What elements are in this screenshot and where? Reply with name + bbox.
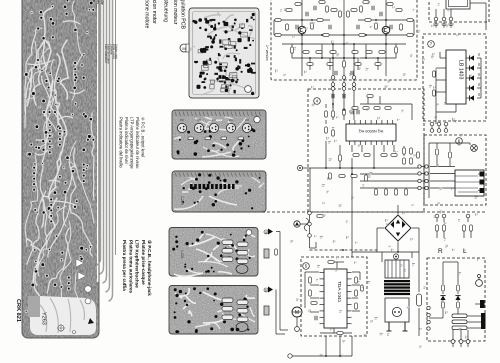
connector pin bbox=[288, 354, 292, 358]
resistor R32 bbox=[433, 90, 436, 96]
svg-text:1-223: 1-223 bbox=[180, 196, 184, 205]
hole board 4 bbox=[246, 230, 252, 236]
resistor R67 bbox=[417, 152, 420, 158]
svg-text:② P.C.B., output level: ② P.C.B., output level bbox=[141, 117, 146, 157]
svg-text:HQ N0009 HQ: HQ N0009 HQ bbox=[359, 129, 384, 133]
tab board 4 bbox=[264, 249, 269, 258]
LED D4 bbox=[470, 85, 474, 90]
resistor R54 bbox=[339, 155, 342, 161]
P.C.B. output level board bbox=[172, 110, 266, 159]
switch wires to terminals bbox=[453, 304, 481, 347]
resistor R output R2 bbox=[443, 225, 446, 231]
connector pins below level meter bbox=[430, 122, 434, 126]
hole board 5 bbox=[246, 288, 252, 294]
P.C.B. main board (solder side) copper pour bbox=[22, 0, 116, 338]
ellipse outline board 5 bbox=[236, 323, 248, 332]
wires power switch bbox=[436, 3, 486, 30]
label area on main board bbox=[28, 296, 40, 317]
svg-text:1-221: 1-221 bbox=[180, 250, 184, 259]
capacitor C2 bbox=[380, 12, 382, 16]
junction bbox=[397, 251, 399, 253]
marker a board4 bbox=[264, 230, 268, 234]
LED D5 bbox=[470, 95, 474, 100]
LED D1 bbox=[470, 55, 474, 60]
long parallel traces right of main board bbox=[97, 0, 113, 301]
wire bus top amp bbox=[274, 0, 414, 77]
resistor R52 bbox=[381, 154, 387, 157]
dashed box bias unit 8 bbox=[427, 258, 485, 341]
capacitor C1 bbox=[306, 12, 308, 16]
resistor R output R bbox=[436, 225, 439, 231]
capacitor C10 bbox=[372, 6, 374, 10]
IC U3 TDA 1041 bbox=[324, 269, 347, 328]
transistor Q2 right channel bbox=[382, 26, 390, 34]
resistor R20 bbox=[352, 51, 358, 54]
jack wires to terminals bbox=[478, 174, 480, 191]
component value labels bbox=[276, 0, 479, 357]
dashed separator line bbox=[262, 211, 486, 213]
connector grid to jack block bbox=[418, 165, 421, 168]
resistor R8 bbox=[359, 34, 365, 37]
resistor R72 bbox=[449, 152, 452, 158]
white trace region bottom of main board bbox=[30, 296, 96, 335]
P.C.B. headphone-jack board (1st) bbox=[169, 228, 258, 277]
mains prongs bbox=[387, 322, 408, 331]
junction bbox=[339, 355, 341, 357]
wires LB1403 pins bbox=[436, 50, 481, 124]
component outlines motor board bbox=[198, 24, 247, 92]
motor terminal circle bbox=[295, 327, 300, 332]
wires jack unit bbox=[429, 143, 470, 198]
capacitor C12 bbox=[357, 110, 359, 114]
resistor R11c bbox=[326, 6, 329, 12]
connector pin bbox=[442, 214, 446, 218]
resistor R28 bbox=[286, 9, 292, 12]
dashed box main amplifier board bbox=[271, 0, 417, 80]
resistor R96 bbox=[457, 285, 460, 291]
microphone symbol bbox=[476, 275, 483, 287]
ground bbox=[448, 22, 453, 28]
connector pins left edge bias unit bbox=[427, 306, 430, 309]
resistor R4 bbox=[407, 34, 413, 37]
bridge rectifier BR1 bbox=[385, 215, 411, 241]
resistor R23 bbox=[307, 63, 313, 66]
motor terminal M bbox=[180, 44, 189, 52]
wires node A region bbox=[276, 212, 316, 334]
svg-text:Platine prise-casque: Platine prise-casque bbox=[141, 240, 146, 285]
capacitor C5 bbox=[335, 71, 337, 75]
block number 6 bbox=[456, 138, 463, 145]
connector pin bbox=[442, 17, 446, 21]
capacitor C21 bbox=[315, 316, 317, 320]
block number 7 bbox=[428, 41, 435, 48]
resistor R87 bbox=[361, 285, 364, 291]
svg-text:LTP Kopfhörerbuchse: LTP Kopfhörerbuchse bbox=[135, 240, 140, 288]
tab board 5 bbox=[264, 306, 269, 315]
resistor R50 bbox=[353, 154, 359, 157]
resistor R30b bbox=[400, 24, 403, 30]
LED D3 bbox=[470, 75, 474, 80]
junction bbox=[342, 249, 344, 251]
resistor R41 bbox=[325, 111, 328, 117]
resistor R16 bbox=[395, 47, 398, 53]
svg-text:cinghie julle: cinghie julle bbox=[100, 0, 105, 6]
mounting hole motor board bbox=[245, 86, 252, 93]
resistor R62 bbox=[405, 189, 408, 195]
resistor R65 bbox=[403, 158, 406, 164]
node A circle with arrow bbox=[294, 221, 300, 227]
main board right edge bbox=[115, 0, 117, 255]
capacitor C13 bbox=[332, 94, 334, 98]
board edge connectors amp to main bbox=[331, 76, 335, 80]
resistor R64 bbox=[410, 148, 413, 154]
top edge band output level board bbox=[173, 111, 265, 117]
resistor R56 bbox=[339, 175, 345, 178]
resistor R46 bbox=[374, 107, 380, 110]
resistor R55 bbox=[329, 173, 332, 179]
svg-text:belts and pulleys: belts and pulleys bbox=[92, 0, 97, 2]
dashed box power switch bbox=[429, 0, 489, 22]
resistor R58 bbox=[365, 175, 368, 181]
svg-text:R: R bbox=[438, 248, 443, 255]
resistor R59 bbox=[375, 189, 378, 195]
resistor R11b bbox=[331, 9, 337, 12]
svg-text:Platina indicador de nivel: Platina indicador de nivel bbox=[124, 117, 129, 164]
svg-text:③ P.C.B., headphone-jack: ③ P.C.B., headphone-jack bbox=[147, 240, 152, 296]
op-amp U1 LB 1403 bbox=[446, 50, 466, 104]
marker arrow to board a bbox=[268, 229, 273, 235]
resistor R85 bbox=[355, 277, 358, 283]
resistor R24 bbox=[327, 63, 333, 66]
output network R channel bbox=[437, 218, 468, 222]
junction bbox=[301, 19, 303, 21]
fuse F1 bbox=[417, 294, 422, 306]
resistor R48 bbox=[367, 95, 373, 98]
resistor R33 bbox=[339, 11, 342, 17]
resistor R15 bbox=[291, 47, 294, 53]
svg-text:egulacion motor: egulacion motor bbox=[151, 0, 157, 24]
mains plug symbol bbox=[392, 307, 401, 316]
svg-text:Platina toma auriculares: Platina toma auriculares bbox=[128, 240, 133, 294]
wire motor bbox=[296, 317, 298, 327]
resistor R98 bbox=[457, 302, 460, 308]
solder pads main board bbox=[24, 0, 95, 332]
dashed box headphone jack unit 6 bbox=[424, 135, 486, 205]
junction bbox=[332, 103, 334, 105]
resistor R61 bbox=[395, 189, 398, 195]
svg-text:Y263: Y263 bbox=[41, 312, 47, 325]
dashed box level meter unit 7 bbox=[423, 34, 486, 121]
hole output level board bbox=[254, 116, 260, 122]
resistor R12b bbox=[351, 9, 357, 12]
record-play switch S2 bbox=[452, 314, 467, 330]
junction bbox=[301, 34, 303, 36]
IC U3 pins bbox=[320, 273, 352, 324]
capacitor C7 bbox=[296, 25, 298, 29]
capacitor C6 bbox=[351, 71, 353, 75]
components on motor regulation board bbox=[194, 17, 256, 94]
resistor R53 bbox=[391, 154, 397, 157]
resistor R71 bbox=[436, 149, 439, 155]
block number 4 bbox=[314, 98, 321, 105]
wires transformer sides bbox=[382, 252, 419, 336]
connector circles on riser bbox=[308, 211, 312, 215]
resistor R6 bbox=[365, 19, 371, 22]
dashed link to power unit bbox=[310, 249, 378, 251]
top edge band board 3 bbox=[173, 172, 265, 178]
junction bbox=[343, 43, 345, 45]
wires central block bbox=[310, 90, 419, 257]
switch contacts board 5 bbox=[222, 298, 233, 303]
dashed box motor drive unit 5 bbox=[301, 257, 367, 336]
resistor R22 bbox=[379, 51, 385, 54]
resistor R18 bbox=[316, 51, 322, 54]
resistor R26 bbox=[375, 63, 381, 66]
P.C.B. headphone-jack board (2nd) bbox=[169, 286, 258, 335]
svg-text:regolazione motore: regolazione motore bbox=[144, 0, 150, 29]
connector pin bbox=[449, 17, 453, 21]
connector pins bottom bias unit bbox=[451, 340, 455, 344]
junction bbox=[343, 34, 345, 36]
resistor R12 bbox=[363, 1, 369, 4]
resistor R21 bbox=[366, 51, 372, 54]
resistor R output L bbox=[463, 225, 466, 231]
diode D12 bbox=[455, 296, 460, 300]
resistor R81 bbox=[328, 261, 334, 264]
capacitor C4 bbox=[357, 25, 359, 29]
resistor R42 bbox=[332, 111, 335, 117]
resistor R47 bbox=[385, 107, 391, 110]
IC U2 preamplifier bbox=[346, 124, 396, 141]
P.C.B. strip board with connector row bbox=[172, 171, 266, 212]
node A junction bbox=[297, 165, 302, 170]
resistor R45 bbox=[363, 107, 369, 110]
capacitor C3 bbox=[329, 25, 331, 29]
resistor R29 bbox=[396, 9, 402, 12]
resistor R97 bbox=[442, 302, 445, 308]
resistor R63 bbox=[403, 148, 406, 154]
svg-text:1ˢᵗ version: 1ˢᵗ version bbox=[265, 45, 269, 61]
connector pin bbox=[435, 214, 439, 218]
resistor R88 bbox=[355, 303, 358, 309]
wires below unit 5 bbox=[290, 336, 352, 356]
marker b board5 bbox=[264, 288, 268, 292]
resistor R14 bbox=[375, 23, 378, 29]
diode D11 bbox=[440, 296, 445, 300]
block number 5 bbox=[303, 263, 310, 270]
svg-text:Lato saldature: Lato saldature bbox=[104, 44, 108, 63]
resistor R66 bbox=[410, 158, 413, 164]
svg-text:regulation moteur: regulation moteur bbox=[172, 0, 178, 25]
resistor R10 bbox=[387, 3, 393, 6]
alignment crosshair bbox=[57, 324, 65, 332]
arrow mark bottom right of main board bbox=[88, 318, 94, 324]
marker arrow to board b bbox=[268, 287, 273, 293]
resistor R89 bbox=[337, 332, 343, 335]
resistor R51 bbox=[364, 154, 370, 157]
resistor R9 bbox=[295, 3, 301, 6]
svg-text:or regulation PCB: or regulation PCB bbox=[180, 0, 186, 29]
IC U2 pins bbox=[350, 120, 393, 145]
resistor R60 bbox=[385, 189, 388, 195]
resistor R7 bbox=[323, 34, 329, 37]
transformer primary winding box bbox=[385, 260, 409, 278]
ellipse outline board 4 bbox=[236, 265, 248, 274]
resistor R45b bbox=[352, 107, 358, 110]
resistor R2 bbox=[275, 34, 281, 37]
wire from unit5 to bridge bbox=[352, 205, 419, 252]
resistor R95 bbox=[442, 285, 445, 291]
capacitor C9 bbox=[314, 6, 316, 10]
junction bbox=[385, 19, 387, 21]
ground bbox=[441, 22, 446, 28]
jack terminals bbox=[480, 172, 485, 177]
resistor R84 bbox=[311, 302, 317, 305]
transistor Q1 left channel bbox=[298, 26, 306, 34]
resistor R57 bbox=[351, 175, 357, 178]
resistor R11 bbox=[319, 1, 325, 4]
connector pin bbox=[466, 214, 470, 218]
resistor R27 bbox=[343, 61, 346, 67]
svg-text:otorsteuerung: otorsteuerung bbox=[163, 0, 169, 22]
wires bias unit bbox=[429, 262, 468, 341]
transistor labels output level board bbox=[180, 119, 249, 121]
svg-text:b: b bbox=[265, 289, 267, 293]
power switch S1 bbox=[446, 0, 470, 9]
resistor R82 bbox=[309, 277, 312, 283]
junction bbox=[325, 355, 327, 357]
switch contacts board 4 bbox=[222, 240, 233, 245]
dashed box main unit 4 bbox=[308, 89, 424, 212]
pilot lamp bbox=[471, 145, 478, 152]
ground bbox=[433, 22, 438, 28]
resistor R13 bbox=[311, 23, 314, 29]
svg-text:LTP Ausgangspegelanzeige: LTP Ausgangspegelanzeige bbox=[130, 117, 135, 169]
resistor R92 bbox=[275, 249, 278, 255]
resistor R31 bbox=[433, 71, 436, 77]
svg-text:M: M bbox=[295, 310, 299, 316]
P.C.B. motor regulation board (component side) bbox=[189, 8, 259, 98]
resistor R19 bbox=[330, 51, 336, 54]
large component blobs motor board bbox=[197, 20, 253, 89]
LED D2 bbox=[470, 65, 474, 70]
resistor R86 bbox=[355, 290, 358, 296]
resistor R49 bbox=[343, 109, 346, 115]
connector pad row board 3 bbox=[190, 184, 235, 189]
connector pin bbox=[434, 17, 438, 21]
transistors on output level board bbox=[177, 123, 186, 132]
resistors output level board bbox=[188, 137, 194, 140]
copper traces main board bbox=[25, 1, 94, 334]
capacitor C11 bbox=[351, 110, 353, 114]
resistor R17 bbox=[303, 51, 309, 54]
resistor R83 bbox=[309, 290, 312, 296]
svg-text:Platine indicateur de niveau: Platine indicateur de niveau bbox=[135, 117, 140, 169]
resistor R3 bbox=[407, 19, 413, 22]
resistor R44 bbox=[332, 130, 335, 136]
resistor R25 bbox=[355, 63, 361, 66]
node B circle bbox=[393, 254, 398, 259]
motor M1 bbox=[292, 307, 302, 317]
svg-text:a: a bbox=[265, 231, 267, 235]
connector pins top of main unit bbox=[331, 87, 335, 91]
resistor R34 bbox=[347, 11, 350, 17]
svg-text:M: M bbox=[182, 46, 185, 51]
resistor R91 bbox=[317, 215, 323, 218]
switch terminals bbox=[480, 300, 485, 308]
svg-text:CRK 821: CRK 821 bbox=[15, 299, 21, 322]
capacitor C14 bbox=[343, 94, 345, 98]
resistor R12c bbox=[360, 6, 363, 12]
capacitor C8 bbox=[390, 25, 392, 29]
headphone jack J1 bbox=[455, 170, 484, 196]
resistor R1 bbox=[275, 19, 281, 22]
transformer T1 core bbox=[384, 280, 410, 295]
svg-text:TDA 1041: TDA 1041 bbox=[336, 281, 342, 303]
svg-text:LB 1403: LB 1403 bbox=[458, 60, 464, 79]
resistor R30a bbox=[286, 24, 289, 30]
junction bbox=[385, 34, 387, 36]
white pad circles main board bbox=[85, 286, 92, 293]
wires motor drive bbox=[305, 262, 360, 333]
transformer secondary box bbox=[385, 298, 409, 322]
resistor R output L2 bbox=[470, 225, 473, 231]
resistor R43 bbox=[325, 127, 328, 133]
resistor R5 bbox=[317, 19, 323, 22]
silkscreen arrows on main board bbox=[76, 259, 84, 267]
svg-text:Piastra presa per cuffia: Piastra presa per cuffia bbox=[122, 240, 127, 291]
svg-text:Piastra indicatore del livello: Piastra indicatore del livello bbox=[119, 117, 124, 168]
